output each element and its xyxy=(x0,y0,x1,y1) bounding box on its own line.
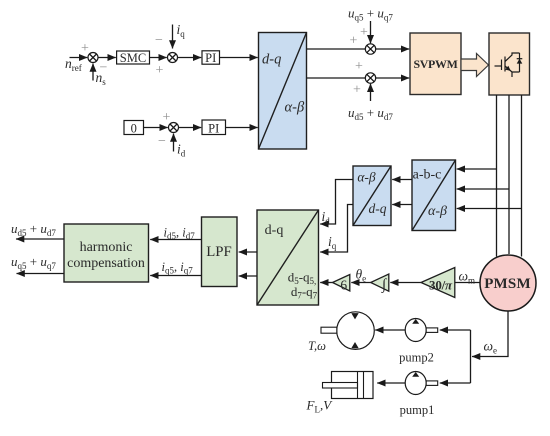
wire integrator to gain6 xyxy=(351,282,370,284)
wire S4 to SVPWM xyxy=(376,48,410,50)
wire T4 to LPF upper xyxy=(239,251,257,253)
svg-text:a-b-c: a-b-c xyxy=(413,168,442,183)
wire 30pi to integrator xyxy=(390,282,421,284)
block SMC xyxy=(117,51,150,65)
svg-text:harmonic: harmonic xyxy=(80,240,133,255)
phase wire B xyxy=(508,95,510,254)
svg-text:+: + xyxy=(353,83,361,98)
wire gain6 to T4 theta_e xyxy=(320,282,332,284)
transform block T2 a-b-c to alpha-beta xyxy=(412,160,456,231)
i_d input arrow xyxy=(173,134,175,152)
summing junction S1 xyxy=(88,53,98,63)
wire i_d T3 to T4 xyxy=(320,180,353,225)
block inverter xyxy=(489,33,530,95)
block PI1 xyxy=(202,51,220,65)
wire PI1 to dq-ab block xyxy=(220,57,258,59)
block harmonic compensation xyxy=(64,224,149,282)
integrator block xyxy=(371,274,389,293)
tap wire C to abc block xyxy=(457,208,522,210)
wire S1 to SMC xyxy=(98,57,116,59)
block zero reference xyxy=(124,121,144,136)
u_q5+u_q7 injection arrow xyxy=(370,21,372,43)
svg-text:+: + xyxy=(163,110,171,125)
block PI2 xyxy=(202,120,226,135)
svg-text:d-q: d-q xyxy=(262,52,281,68)
phase wire A xyxy=(496,95,498,257)
svg-text:FL,V: FL,V xyxy=(306,398,334,415)
svg-text:+: + xyxy=(156,63,164,78)
u_d5+u_d7 injection arrow xyxy=(370,84,372,101)
wire T1 to S5 xyxy=(307,77,366,79)
wire PI2 to dq-ab block xyxy=(226,127,258,129)
summing junction S3 xyxy=(169,123,179,133)
svg-text:0: 0 xyxy=(131,121,137,135)
wire pump2 to motor xyxy=(375,329,405,331)
hydraulic cylinder symbol xyxy=(323,372,374,399)
output wire u_q5+u_q7 xyxy=(17,273,65,275)
wire 0 to S3 xyxy=(144,127,168,129)
svg-text:d-q: d-q xyxy=(369,201,387,216)
svg-text:SMC: SMC xyxy=(120,51,146,65)
svg-text:compensation: compensation xyxy=(67,256,145,271)
svg-text:+: + xyxy=(350,34,358,49)
svg-text:α-β: α-β xyxy=(428,204,447,219)
svg-text:PI: PI xyxy=(205,51,216,65)
tap wire B to abc block xyxy=(457,188,509,190)
summing junction S4 xyxy=(365,44,375,54)
output wire u_d5+u_d7 xyxy=(16,238,64,240)
gain block 6 xyxy=(333,275,350,293)
phase wire C xyxy=(521,95,523,257)
transform block T4 d-q to d5q5 d7q7 xyxy=(257,210,319,305)
svg-text:T,ω: T,ω xyxy=(308,339,326,353)
wire branch connector xyxy=(470,330,472,383)
wire T1 to S4 xyxy=(307,48,366,50)
tap wire A to abc block xyxy=(457,168,497,170)
svg-text:+: + xyxy=(360,25,368,40)
svg-text:SVPWM: SVPWM xyxy=(413,57,457,71)
block arrow SVPWM to inverter xyxy=(461,54,489,77)
IGBT symbol U1 xyxy=(495,53,523,77)
svg-text:pump2: pump2 xyxy=(399,351,434,365)
wire PMSM down to omega_e xyxy=(472,311,508,357)
wire n_ref input xyxy=(70,57,88,59)
wire SMC to S2 xyxy=(150,57,167,59)
n_s feedback arrow xyxy=(92,64,94,81)
block SVPWM xyxy=(410,33,461,95)
wire LPF to harmonic compensation upper xyxy=(150,239,201,241)
wire i_q T3 to T4 xyxy=(320,205,353,253)
svg-text:PMSM: PMSM xyxy=(484,276,531,292)
svg-text:PI: PI xyxy=(208,121,219,135)
block LPF xyxy=(202,217,238,287)
svg-text:30/π: 30/π xyxy=(429,277,453,292)
wire branch to pump2 xyxy=(440,329,471,331)
svg-text:+: + xyxy=(355,59,363,74)
wire T2 to T3 lower xyxy=(392,204,412,206)
pump2 symbol xyxy=(405,319,438,342)
summing junction S5 xyxy=(365,73,375,83)
svg-text:LPF: LPF xyxy=(206,244,232,260)
wire branch to pump1 xyxy=(440,382,471,384)
wire T4 to LPF lower xyxy=(239,275,257,277)
svg-text:d-q: d-q xyxy=(265,223,284,238)
hydraulic motor symbol xyxy=(321,312,374,350)
summing junction S2 xyxy=(168,53,178,63)
wire S2 to PI1 xyxy=(178,57,202,59)
svg-text:pump1: pump1 xyxy=(400,403,435,417)
svg-text:α-β: α-β xyxy=(357,170,376,185)
svg-text:α-β: α-β xyxy=(285,100,305,116)
transform block T1 d-q to alpha-beta xyxy=(259,33,307,150)
svg-text:+: + xyxy=(81,41,89,56)
PMSM machine xyxy=(480,255,536,311)
wire pump1 to cylinder xyxy=(377,382,405,384)
wire T2 to T3 upper xyxy=(392,179,412,181)
gain block 30/pi xyxy=(421,268,455,298)
wire S5 to SVPWM xyxy=(376,77,410,79)
wire S3 to PI2 xyxy=(179,127,202,129)
wire LPF to harmonic compensation lower xyxy=(150,275,201,277)
transform block T3 alpha-beta to d-q xyxy=(353,166,391,226)
wire PMSM to 30pi xyxy=(455,282,480,284)
i_q input arrow xyxy=(172,25,174,49)
svg-text:−: − xyxy=(158,134,166,149)
svg-text:6: 6 xyxy=(340,277,347,292)
pump1 symbol xyxy=(405,372,438,395)
svg-text:−: − xyxy=(155,33,163,48)
